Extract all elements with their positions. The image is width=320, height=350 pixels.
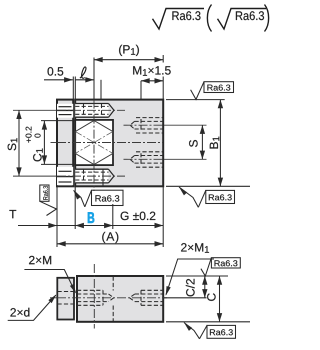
thread depth line x=103	[102, 169, 104, 186]
bottom view: 2xM / 2xd hole (hidden)	[58, 291, 75, 293]
lower-left hole drill point cone	[109, 169, 115, 176]
arrows C	[217, 276, 222, 285]
hex flat diagonal mark 1	[76, 132, 113, 154]
main view: clamp plate, thickness T	[57, 100, 73, 187]
arrows M1x1.5	[141, 78, 150, 83]
centerline upper set screw / S extension	[124, 124, 164, 126]
dimension l (thread reach): dimension line	[75, 79, 94, 81]
general surface finish note Ra6.3	[153, 9, 205, 30]
upper right set screw hole M1 (hidden)	[136, 117, 163, 119]
arrows C/2	[202, 276, 207, 285]
surface roughness Ra6.3 bottom view top face	[201, 258, 212, 276]
arrows 0.5 and l	[64, 77, 73, 82]
bottom view bottom extension line	[166, 321, 250, 323]
arrows (A)	[57, 241, 66, 246]
hexagon socket outline C1 across flats	[75, 121, 112, 165]
centerlines	[13, 100, 207, 191]
clamp plate upper clearance hole (side view)	[57, 104, 73, 118]
upper-left tapped hole 2xM bore	[75, 104, 108, 118]
vertical centerline of hex hole	[93, 100, 95, 191]
roughness on bottom-view top ext	[201, 258, 240, 276]
surface roughness Ra6.3 bottom view bottom face (leader)	[184, 323, 200, 339]
bottom view: hole centerline	[50, 297, 57, 299]
dimension (P1): dimension line	[94, 59, 163, 61]
bottom view: clamp plate	[57, 278, 74, 320]
dimension M1x1.5 depth: dimension line	[141, 80, 163, 82]
dimension C/2: dimension line	[204, 276, 206, 298]
roughness below bottom-view bottom ext (leader)	[184, 323, 236, 339]
lower-left tapped hole 2xM bore	[75, 169, 108, 183]
bottom view: vertical centerline	[93, 264, 95, 329]
hex flat diagonal mark 2	[76, 132, 113, 154]
extension lines below main view	[56, 186, 58, 247]
arrows S1	[16, 110, 21, 119]
roughness bottom-right of main view (leader)	[179, 187, 235, 207]
leader for 2xd	[8, 295, 56, 320]
dimension (A): dimension line	[57, 243, 163, 245]
lower-left hole thread lines (dashed)	[75, 171, 108, 173]
upper-left hole thread lines (dashed)	[75, 105, 108, 107]
arrows (P1)	[94, 57, 103, 62]
bottom view: hidden hex slot edge	[112, 277, 114, 291]
arrows T, B, G	[48, 223, 57, 228]
roughness top-right of main view	[191, 82, 234, 100]
rotated roughness bottom-left	[40, 185, 57, 216]
dimension line T / B / G	[18, 225, 163, 227]
leader for 2xM	[24, 270, 75, 293]
dimension 0.5 slit width: dimension line	[44, 79, 73, 81]
surface roughness Ra6.3 on left face (rotated)	[40, 201, 57, 215]
bottom surface extension line	[166, 185, 250, 187]
dimension S: dimension line	[201, 125, 203, 159]
dimension B1: dimension line	[219, 100, 221, 187]
roughness above B (leader)	[74, 190, 124, 207]
leader for 2xM1	[166, 259, 214, 295]
dimension (P1): extension lines	[93, 58, 95, 100]
surface roughness Ra6.3 on bottom face (leader)	[179, 187, 198, 207]
dimension C: dimension line	[219, 276, 221, 322]
bottom view: 2xM1 set screw hole (hidden)	[135, 293, 163, 295]
bottom view top extension line	[166, 275, 228, 277]
surface roughness Ra6.3 on top face	[191, 82, 204, 100]
lower right set screw hole M1 (hidden)	[136, 151, 163, 153]
horizontal centerline of hex hole	[51, 142, 57, 144]
clamp plate lower clearance hole (side view)	[57, 167, 73, 185]
main view: coupling body (section)	[75, 100, 163, 187]
centerline lower-left hole / S1 extension	[13, 175, 57, 177]
parenthetical surface finish note Ra6.3	[218, 9, 267, 30]
bottom view: body	[77, 276, 163, 322]
ext/dim right of bottom view	[164, 276, 250, 322]
upper-left hole drill point cone	[109, 104, 115, 111]
arrows C1	[42, 121, 47, 130]
labels bottom view	[29, 256, 51, 264]
surface roughness Ra6.3 on slit face (leader)	[74, 190, 85, 206]
arrows S	[200, 125, 205, 134]
centerline lower set screw / S extension	[124, 158, 164, 160]
dimension C1 +0.2/0: dimension line	[43, 121, 45, 164]
dimension S1: dimension line	[18, 110, 20, 176]
hex through-hole slot opening	[75, 120, 113, 165]
right set screw holes (hidden)	[130, 118, 163, 168]
top surface extension line	[166, 99, 225, 101]
centerline upper-left hole / S1 extension	[13, 109, 57, 111]
arrows B1	[218, 100, 223, 109]
